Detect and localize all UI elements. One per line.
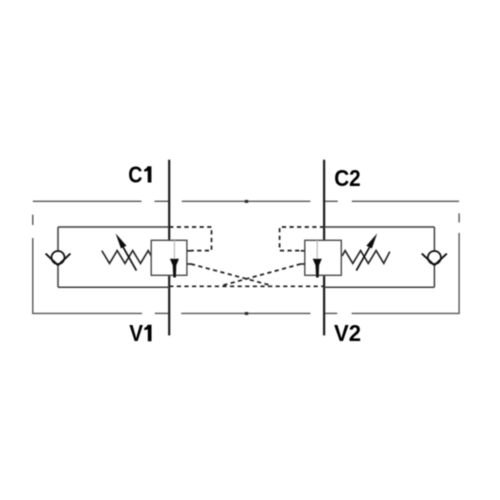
- cross pilot diagonal from right valve (dashed): [221, 264, 300, 286]
- pilot stubs right valve: [301, 251, 305, 264]
- left valve envelope: [58, 227, 170, 287]
- valve block left boundary (dashed): [32, 215, 34, 314]
- check valve right (ball and seat): [422, 251, 447, 265]
- flow path arrow right: [313, 240, 322, 277]
- port line C1-V1: [168, 160, 170, 336]
- svg-text:C2: C2: [334, 165, 361, 191]
- port line C2-V2: [323, 160, 325, 336]
- cross pilot diagonal from left valve (dashed): [191, 264, 272, 286]
- right valve envelope: [324, 227, 434, 287]
- valve block right boundary (dashed): [458, 213, 460, 314]
- label V1: [129, 320, 151, 346]
- flow path arrow left: [170, 240, 179, 277]
- pilot line box left (dashed): [169, 227, 211, 251]
- pilot stubs left valve: [187, 251, 191, 264]
- adjustment arrow right: [356, 233, 377, 270]
- junction dot on bottom boundary: [245, 312, 248, 315]
- svg-text:C: C: [128, 162, 142, 188]
- spring left: [102, 251, 151, 264]
- valve block bottom boundary: [33, 312, 459, 314]
- valve block top boundary: [33, 200, 459, 202]
- svg-text:V2: V2: [334, 320, 361, 346]
- svg-text:V: V: [129, 320, 143, 346]
- relief valve body right: [305, 240, 342, 275]
- cross pilot horizontal (dashed): [169, 285, 324, 287]
- label C1: [128, 162, 151, 188]
- pilot line box right (dashed): [280, 227, 325, 251]
- relief valve body left: [151, 240, 187, 275]
- check valve left (ball and seat): [46, 251, 71, 265]
- spring right: [342, 251, 390, 264]
- adjustment arrow left: [116, 233, 137, 270]
- junction dot on top boundary: [245, 200, 248, 203]
